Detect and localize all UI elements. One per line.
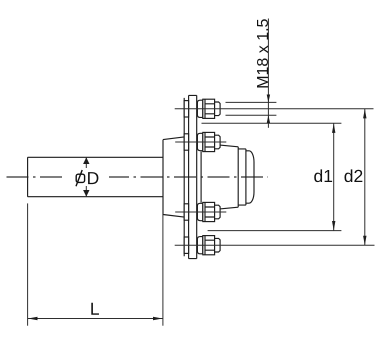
stud 2 washer collar [197,133,202,150]
M18 leader line [267,19,269,128]
L left extension line [27,203,29,325]
stud 4 head [184,237,188,253]
arrowheads d1 [332,123,335,132]
dust cap rim [238,149,246,205]
stud 3 nut body [203,202,215,221]
stud 2 thread end [215,135,221,149]
stud 2 head [184,134,188,150]
shaft (spindle) [28,157,163,196]
hub barrel (tapered boss) [163,137,184,217]
stud 2 nut face and chamfer lines [205,132,215,151]
svg-text:d2: d2 [344,166,363,186]
d1 dimension line [333,123,335,230]
svg-text:L: L [90,299,100,319]
stud 3 nut face and chamfer lines [205,202,215,221]
stud 2 nut body [203,132,215,151]
svg-text:M18 x 1.5: M18 x 1.5 [255,18,272,88]
diameter symbol [76,170,85,186]
d2 dimension line [364,109,366,246]
hub front face line [183,98,185,256]
stud 4 nut body [203,236,215,255]
svg-text:d1: d1 [313,166,332,186]
stud 3 washer collar [197,203,202,220]
L dimension line [28,318,163,320]
white-out behind ⌀D text [65,168,109,187]
flange plate [189,95,197,258]
stud 4 washer collar [197,237,202,254]
stud 2 axis line [175,141,226,143]
stud 3 axis line [175,211,226,213]
svg-text:D: D [87,168,100,188]
stud 1 axis line (d2 top extension) [175,108,374,110]
stud 4 axis line (d2 bottom extension) [175,244,375,246]
stud 1 washer collar [197,100,202,117]
M18 thread top extension line [226,101,277,103]
d1 top extension line [202,122,342,124]
stud 1 nut face and chamfer lines [205,99,215,118]
arrowheads ⌀D [83,157,89,164]
d1 bottom extension line [208,230,342,232]
stud 3 head [184,204,188,220]
stud 1 thread end [215,102,221,116]
stud 4 thread end [215,238,221,252]
stud 3 thread end [215,205,221,219]
dust cap dome [246,151,254,203]
arrowheads d2 [363,109,366,119]
M18 thread bottom extension line [226,114,277,116]
arrowheads L [28,317,38,320]
stud 1 nut body [203,99,215,118]
diameter D dimension line [85,157,87,196]
arrowheads M18 [267,95,270,103]
stud 1 head [184,101,188,117]
stud 4 nut face and chamfer lines [205,236,215,255]
L right extension line [162,215,164,326]
housing step line at flange [200,152,202,203]
bearing housing [215,145,239,210]
center line (horizontal dash-dot axis) [7,176,269,178]
